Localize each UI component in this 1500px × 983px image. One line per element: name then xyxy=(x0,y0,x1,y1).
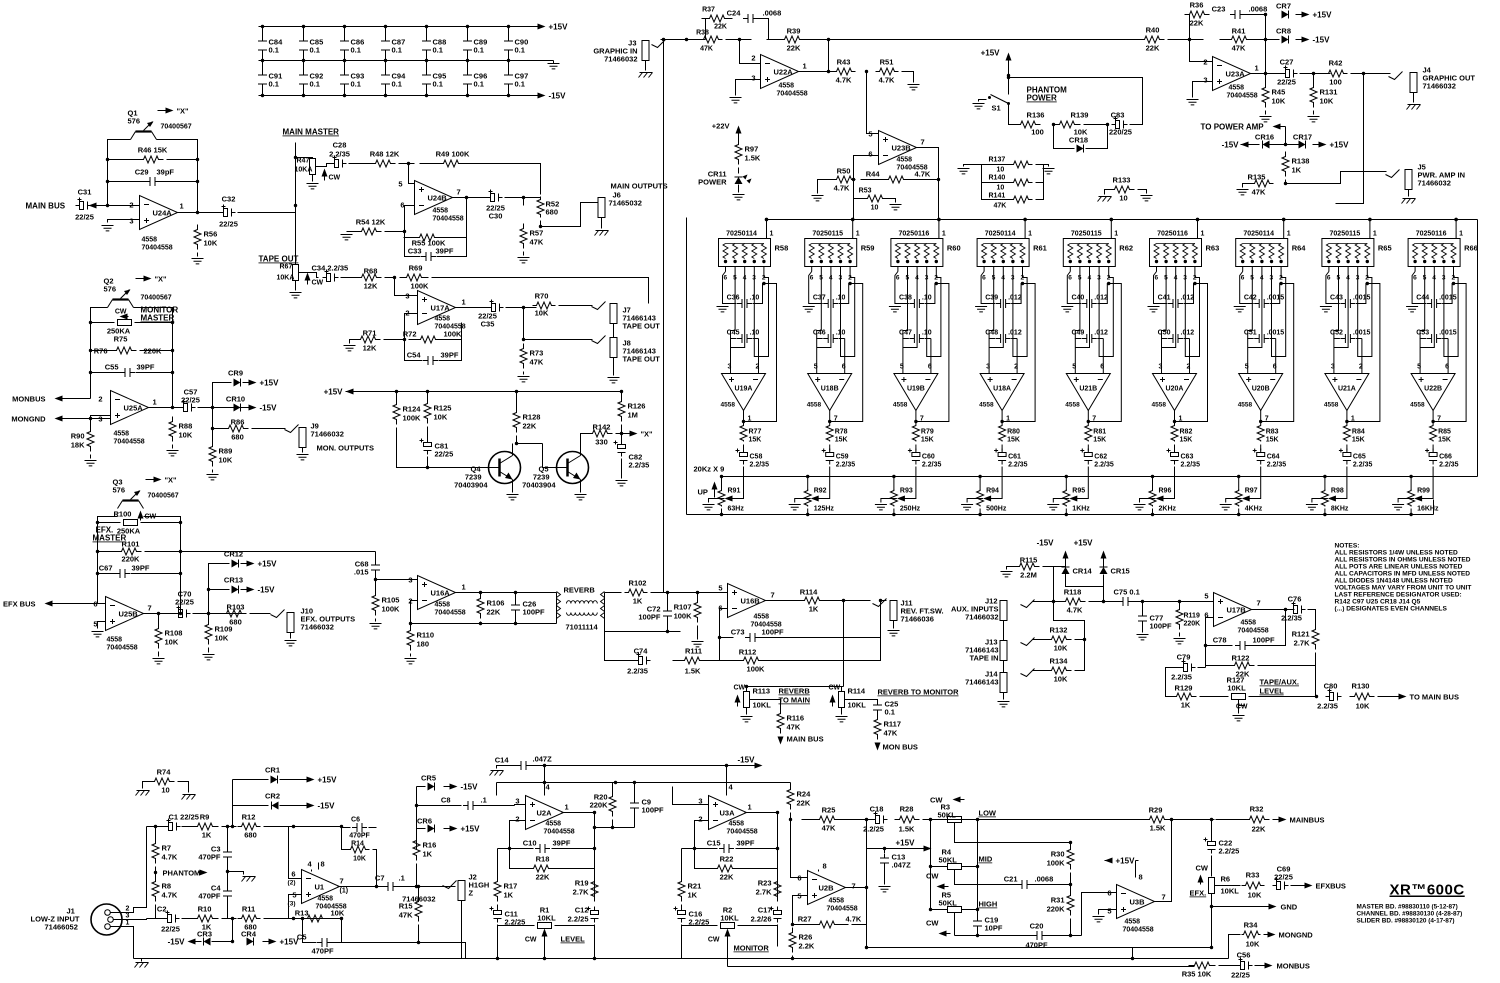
node -15V rail xyxy=(543,764,728,767)
wire pot bottom ch5 xyxy=(1065,509,1067,515)
wire ecap to wiper ch7 xyxy=(1248,467,1261,499)
wire R29 right xyxy=(1216,819,1245,821)
wire J4 gnd xyxy=(1413,93,1415,103)
wire bottom rail right xyxy=(668,631,681,633)
wire R1 wiper down xyxy=(544,939,546,959)
wire R17 bot xyxy=(497,905,499,910)
svg-text:70404558: 70404558 xyxy=(827,906,858,913)
svg-text:C6: C6 xyxy=(351,817,360,824)
svg-text:2.2/35: 2.2/35 xyxy=(750,462,770,469)
svg-text:LOW: LOW xyxy=(979,809,997,818)
ground R45 xyxy=(1260,117,1272,122)
svg-text:R82: R82 xyxy=(1180,429,1193,436)
pin 1 stub ch2 xyxy=(852,220,854,239)
wire C33 right xyxy=(437,238,467,257)
wire R90 gnd xyxy=(90,455,92,459)
hook J7 xyxy=(592,302,606,310)
svg-text:CR15: CR15 xyxy=(1111,567,1130,576)
node R136 R139 xyxy=(1052,123,1055,126)
wire cap1 right ch4 xyxy=(1011,284,1022,304)
wire C29 right xyxy=(159,181,198,183)
wire R21 bot xyxy=(681,905,683,910)
wire U2A pin4 xyxy=(544,783,546,796)
hook J11 xyxy=(873,599,887,607)
potentiometer R100 250KA xyxy=(124,520,138,526)
wire R27 to pin5 xyxy=(793,896,808,925)
wire C57 to node xyxy=(198,407,246,409)
wire R131 gnd xyxy=(1313,111,1315,115)
svg-text:680: 680 xyxy=(546,208,559,217)
wire ecap to wiper ch3 xyxy=(903,467,916,499)
svg-text:1: 1 xyxy=(1287,231,1291,238)
node cap1 pin2 ch2 xyxy=(848,282,851,285)
node r6 mon xyxy=(1210,946,1213,949)
diode CR7 xyxy=(1282,11,1289,19)
wire C3 bot xyxy=(227,860,229,872)
svg-text:R84: R84 xyxy=(1352,429,1365,436)
wire pot top ch4 xyxy=(979,477,981,491)
svg-text:R136: R136 xyxy=(1027,111,1045,120)
pin 1 stub ch9 xyxy=(1455,220,1457,239)
diode CR6 xyxy=(428,825,435,833)
wire R70 to J7 xyxy=(559,305,593,307)
svg-text:0.1: 0.1 xyxy=(433,80,443,89)
resistor R135 47K xyxy=(1251,180,1274,187)
svg-text:2.2/35: 2.2/35 xyxy=(836,462,856,469)
svg-text:8: 8 xyxy=(1139,873,1143,882)
node C20 R31 xyxy=(1069,934,1072,937)
wire R41 right xyxy=(1257,39,1280,41)
svg-text:+15V: +15V xyxy=(1116,857,1136,866)
svg-text:R114: R114 xyxy=(848,687,866,696)
svg-text:U19A: U19A xyxy=(735,386,753,393)
wire R4 left xyxy=(931,866,948,868)
svg-text:71466032: 71466032 xyxy=(402,895,435,904)
svg-text:3: 3 xyxy=(405,292,409,301)
svg-text:10: 10 xyxy=(161,786,169,795)
svg-text:CW: CW xyxy=(115,309,127,316)
wire fb U23A xyxy=(1265,40,1267,74)
wire cap1 right ch6 xyxy=(1184,284,1195,304)
wire R12 right xyxy=(264,826,342,828)
svg-text:70404558: 70404558 xyxy=(777,91,808,98)
svg-text:C74: C74 xyxy=(634,647,649,656)
node out ch2 xyxy=(828,420,831,423)
node pot top ch2 xyxy=(806,475,809,478)
svg-text:5: 5 xyxy=(93,620,97,629)
EQ filter block 70250116 ch3 xyxy=(891,239,943,267)
svg-text:C49: C49 xyxy=(1071,330,1084,337)
node pot bottom ch8 xyxy=(1323,513,1326,516)
svg-text:1K: 1K xyxy=(1181,701,1191,710)
svg-text:R105: R105 xyxy=(382,596,400,605)
resistor R34 10K xyxy=(1242,931,1261,938)
diode CR1 xyxy=(271,776,278,784)
coil resistors inside block ch2 xyxy=(809,244,852,259)
wire node up CR12 xyxy=(209,564,230,614)
potentiometer R95 1KHz xyxy=(1063,490,1070,507)
svg-text:100PF: 100PF xyxy=(1253,636,1276,645)
resistor R81 15K xyxy=(1085,425,1092,442)
wire R15 bus xyxy=(342,942,419,944)
wire R26 bottom xyxy=(792,956,794,959)
svg-text:39pF: 39pF xyxy=(157,168,175,177)
wire C10 left xyxy=(510,848,534,850)
coil resistors inside block ch6 xyxy=(1154,244,1197,259)
svg-text:R44: R44 xyxy=(866,170,881,179)
ground phantom left xyxy=(958,169,970,174)
node U17B out xyxy=(1284,608,1287,611)
hook J4 xyxy=(1389,72,1403,80)
wire Q3 left leg xyxy=(98,517,118,604)
pin stubs 6-2 ch6 xyxy=(1157,267,1195,272)
ground R131 xyxy=(1308,117,1320,122)
wire R56 to ground xyxy=(197,253,199,257)
svg-text:R140: R140 xyxy=(989,175,1006,182)
resistor R77 15K xyxy=(740,425,747,442)
wire R119 top xyxy=(1179,602,1181,605)
svg-text:CR4: CR4 xyxy=(241,930,257,939)
+15V arrow CR1 xyxy=(301,779,311,781)
wire cap2 left ch1 xyxy=(731,331,737,339)
svg-text:R67: R67 xyxy=(280,264,293,271)
wire pin5 ch4 xyxy=(989,272,994,331)
reverb transformer coils xyxy=(567,601,598,616)
svg-text:15K: 15K xyxy=(1180,437,1193,444)
wire R49 to out node xyxy=(482,164,541,195)
node pin2 xyxy=(106,204,109,207)
wire u2b mon line xyxy=(1106,947,1212,949)
capacitor C75 0.1 xyxy=(1118,597,1133,606)
node J4 xyxy=(1362,72,1365,75)
wire opamp out ch3 xyxy=(915,411,917,425)
svg-text:"X": "X" xyxy=(165,476,178,485)
wire R108 stem xyxy=(158,614,160,627)
EQ filter block 70250114 ch4 xyxy=(977,239,1029,267)
ground C82 xyxy=(616,481,628,486)
svg-text:47K: 47K xyxy=(994,203,1007,210)
wire -15V down to U3A xyxy=(726,766,728,783)
capacitor C95 0.1 xyxy=(426,61,428,96)
wire C8 right xyxy=(477,805,515,807)
diode CR10 xyxy=(234,404,241,412)
svg-text:70250114: 70250114 xyxy=(726,231,757,238)
wire C32 to main master xyxy=(238,212,296,214)
node R16 C7 xyxy=(415,885,418,888)
wire U17A out xyxy=(456,307,488,309)
svg-text:+15V: +15V xyxy=(549,23,569,32)
svg-text:U21A: U21A xyxy=(1338,386,1356,393)
wire out down xyxy=(594,869,596,901)
resistor R30 100K xyxy=(1067,845,1074,870)
transistor Q3 xyxy=(123,499,139,501)
wire C74 left xyxy=(605,632,635,661)
wire feedback ch8 xyxy=(1347,284,1380,422)
svg-text:.10: .10 xyxy=(922,330,932,337)
node pot bottom ch2 xyxy=(806,513,809,516)
capacitor C89 0.1 xyxy=(467,27,469,61)
rail nodes xyxy=(395,390,623,393)
transistor Q1 xyxy=(136,130,152,132)
node R86 xyxy=(211,427,214,430)
resistor R38 47K xyxy=(700,36,723,43)
svg-text:ALL RESISTORS IN OHMS UNLESS N: ALL RESISTORS IN OHMS UNLESS NOTED xyxy=(1335,557,1471,564)
op-amp U24B xyxy=(415,181,453,215)
svg-text:C75 0.1: C75 0.1 xyxy=(1114,588,1140,597)
capacitor C46 .10 ch2 xyxy=(823,334,838,343)
capacitor C97 0.1 xyxy=(508,61,510,96)
op-amp U3A xyxy=(709,796,747,830)
wire pin3 ch7 xyxy=(1272,272,1276,357)
svg-text:3: 3 xyxy=(129,217,133,226)
ground U25B pin5 xyxy=(92,632,104,637)
wire pot bottom ch9 xyxy=(1410,509,1412,515)
EQ filter block 70250116 ch6 xyxy=(1150,239,1202,267)
wire R112 right xyxy=(768,638,881,661)
wire opamp minus ch4 xyxy=(1016,339,1018,374)
svg-text:U22B: U22B xyxy=(1424,386,1442,393)
wire R86 to J9 xyxy=(252,428,286,430)
wire U2B up right xyxy=(866,849,868,888)
pot wiper arrow ch1 xyxy=(725,496,733,502)
svg-text:2.2/35: 2.2/35 xyxy=(1281,614,1302,623)
wire Q3 right leg xyxy=(144,517,181,614)
svg-text:18K: 18K xyxy=(71,441,85,450)
wire pin3 ch1 xyxy=(754,272,758,357)
svg-text:+22V: +22V xyxy=(712,122,730,131)
svg-text:100K: 100K xyxy=(674,612,693,621)
pot wiper arrow ch3 xyxy=(897,496,905,502)
svg-text:10K: 10K xyxy=(1054,675,1068,684)
svg-text:3: 3 xyxy=(986,364,990,371)
resistor R140 10 xyxy=(1010,179,1033,186)
svg-text:6: 6 xyxy=(1100,364,1104,371)
pot wiper arrow ch9 xyxy=(1414,496,1422,502)
svg-text:MAIN BUS: MAIN BUS xyxy=(787,735,824,744)
node R106 bottom xyxy=(479,622,517,625)
svg-text:ALL DIODES 1N4148 UNLESS NOTED: ALL DIODES 1N4148 UNLESS NOTED xyxy=(1335,578,1453,585)
svg-text:R97: R97 xyxy=(745,145,759,154)
top bus dot ch1 xyxy=(765,218,768,221)
wire C73 right xyxy=(759,601,881,638)
monbus arrow xyxy=(63,398,91,400)
svg-text:22/25: 22/25 xyxy=(1231,971,1250,980)
ground S1 xyxy=(973,104,985,109)
svg-text:47K: 47K xyxy=(700,46,713,53)
svg-text:1: 1 xyxy=(1114,231,1118,238)
svg-text:6: 6 xyxy=(797,874,801,883)
ground cap1 ch9 xyxy=(1406,307,1418,312)
svg-text:2: 2 xyxy=(1359,364,1363,371)
wire to ecap ch4 xyxy=(1001,445,1003,451)
wire pot gnd ch8 xyxy=(1312,499,1328,503)
node R30 top xyxy=(1069,841,1072,844)
capacitor C49 .012 ch5 xyxy=(1082,334,1097,343)
svg-text:POWER: POWER xyxy=(698,178,727,187)
svg-text:C23: C23 xyxy=(1212,5,1226,14)
resistor R32 22K xyxy=(1245,816,1270,823)
svg-text:C18: C18 xyxy=(870,805,884,814)
svg-text:5: 5 xyxy=(1107,907,1111,916)
wire J4 node down xyxy=(1336,74,1364,204)
wire CR18 right xyxy=(1086,125,1108,149)
capacitor C53 .0015 ch9 xyxy=(1427,334,1442,343)
potentiometer R75 250KA xyxy=(118,320,132,326)
wire pot bottom ch7 xyxy=(1238,509,1240,515)
svg-text:100PF: 100PF xyxy=(642,806,665,815)
resistor R130 10K xyxy=(1350,693,1375,700)
op-amp U19A xyxy=(722,374,766,411)
svg-text:2: 2 xyxy=(126,906,130,913)
wire U2A pin3 in xyxy=(515,805,526,806)
svg-text:TAPE OUT: TAPE OUT xyxy=(623,355,661,364)
potentiometer R5 50KL xyxy=(948,907,962,913)
svg-text:C29: C29 xyxy=(135,168,149,177)
wire R113 gnd xyxy=(746,708,748,715)
wire C16 gnd xyxy=(681,925,683,959)
block internal top bar ch2 xyxy=(812,243,850,245)
svg-text:R72: R72 xyxy=(403,330,417,339)
node cap1 pin2 ch8 xyxy=(1366,282,1369,285)
wire cap2 left ch6 xyxy=(1162,331,1168,339)
R2 CW arrow xyxy=(727,932,729,939)
wire to ecap ch3 xyxy=(915,445,917,451)
potentiometer R2 10KL xyxy=(721,923,735,929)
svg-text:R37: R37 xyxy=(702,7,715,14)
node pot bottom ch7 xyxy=(1237,513,1240,516)
resistor R73 47K xyxy=(520,344,527,369)
resistor R45 10K xyxy=(1262,83,1269,108)
monitor bus bottom xyxy=(728,966,1195,968)
svg-text:MON BUS: MON BUS xyxy=(883,743,918,752)
svg-text:.10: .10 xyxy=(836,295,846,302)
EQ filter block 70250114 ch7 xyxy=(1236,239,1288,267)
wire R101 to C68 long xyxy=(181,551,376,553)
svg-text:R135: R135 xyxy=(1248,173,1266,182)
resistor R103 680 xyxy=(222,610,247,617)
svg-text:C1 22/25: C1 22/25 xyxy=(169,813,199,822)
resistor R31 220K xyxy=(1067,891,1074,916)
+15V arrow CR9 xyxy=(243,382,253,384)
capacitor C47 .10 ch3 xyxy=(909,334,924,343)
svg-text:10KL: 10KL xyxy=(720,914,739,923)
node R135 R138 xyxy=(1284,182,1287,185)
pin labels ch9 xyxy=(1413,275,1455,282)
wire out down U3A xyxy=(777,869,779,901)
diode CR18 xyxy=(1077,145,1084,153)
op-amp U17A xyxy=(418,291,456,325)
wire R114 wiper xyxy=(845,700,878,703)
svg-text:(2): (2) xyxy=(288,880,296,887)
svg-text:-15V: -15V xyxy=(1037,539,1055,548)
wire C14 left gnd xyxy=(497,766,518,769)
node fb U3A xyxy=(693,847,779,850)
wire feedback ch9 xyxy=(1433,284,1466,422)
capacitor C91 0.1 xyxy=(262,61,264,96)
wire R2 wiper down xyxy=(727,939,729,967)
wire cap1 left ch3 xyxy=(895,297,909,304)
svg-text:R50: R50 xyxy=(837,167,851,176)
wire R21 top xyxy=(681,849,683,877)
pin stubs 6-2 ch9 xyxy=(1415,267,1453,272)
svg-text:R62: R62 xyxy=(1119,244,1133,253)
svg-text:C41: C41 xyxy=(1158,295,1171,302)
wire rail u2a xyxy=(497,782,791,784)
svg-text:100K: 100K xyxy=(1047,859,1066,868)
pot wiper arrow ch7 xyxy=(1242,496,1250,502)
wire node to pin3 xyxy=(395,278,418,296)
svg-text:R137: R137 xyxy=(989,157,1006,164)
svg-text:R74: R74 xyxy=(157,768,172,777)
pin 1 stub ch6 xyxy=(1197,220,1199,239)
capacitor C84 0.1 xyxy=(262,27,264,61)
wire to J2 xyxy=(433,886,456,888)
svg-text:4558: 4558 xyxy=(754,614,770,621)
svg-text:CR10: CR10 xyxy=(226,395,245,404)
svg-text:4558: 4558 xyxy=(1152,402,1167,409)
svg-text:U22A: U22A xyxy=(774,68,794,77)
node R12 out xyxy=(292,825,343,828)
node fb U16B xyxy=(718,636,721,639)
node out ch9 xyxy=(1431,420,1434,423)
svg-text:125Hz: 125Hz xyxy=(814,506,835,513)
wire R16 down xyxy=(416,864,418,887)
wire U3A pin4 xyxy=(726,783,728,796)
svg-text:R83: R83 xyxy=(1266,429,1279,436)
efx bus arrow xyxy=(53,603,106,605)
svg-text:1: 1 xyxy=(1028,231,1032,238)
wire phantom gnd right xyxy=(1044,165,1049,167)
capacitor C5 470PF xyxy=(317,938,332,947)
svg-text:MON. OUTPUTS: MON. OUTPUTS xyxy=(317,444,375,453)
svg-text:5: 5 xyxy=(1204,592,1208,601)
svg-text:R43: R43 xyxy=(837,58,851,67)
potentiometer R47 10KA xyxy=(310,159,316,175)
pot wiper arrow ch6 xyxy=(1156,496,1164,502)
svg-text:CR7: CR7 xyxy=(1276,2,1291,11)
wire pin3 ch6 xyxy=(1185,272,1189,357)
wire C17 gnd xyxy=(777,925,779,947)
wire CR1 right xyxy=(280,779,301,781)
resistor R46 15K xyxy=(139,156,164,163)
svg-text:.1: .1 xyxy=(481,796,487,805)
capacitor C21 .0068 xyxy=(1017,880,1032,889)
top bus dot ch4 xyxy=(1023,218,1026,221)
wire node up power amp xyxy=(1285,127,1287,145)
node C1 R7 xyxy=(154,825,157,828)
resistor R27 4.7K xyxy=(806,921,849,928)
svg-text:70250115: 70250115 xyxy=(1071,231,1102,238)
svg-text:10K: 10K xyxy=(1272,97,1286,106)
wire secondary top to R102 xyxy=(605,592,622,594)
block internal bottom dots ch8 xyxy=(1327,260,1369,263)
wire R43 node down to U23B xyxy=(867,72,879,134)
wire cap2 left ch8 xyxy=(1334,331,1340,339)
ground R90 xyxy=(85,461,97,466)
resistor R108 10K xyxy=(155,624,162,649)
pin 1 stub ch7 xyxy=(1283,220,1285,239)
wire phantom right r140 xyxy=(1036,182,1044,184)
svg-text:4558: 4558 xyxy=(897,157,913,164)
wire node down xyxy=(523,308,525,340)
capacitor C56 22/25 xyxy=(1237,958,1253,970)
R67 CW arrow xyxy=(307,276,309,285)
svg-text:6: 6 xyxy=(982,275,986,282)
pot wiper arrow ch2 xyxy=(811,496,819,502)
wire opamp minus ch7 xyxy=(1275,339,1277,374)
wire U2A pin2 loop xyxy=(510,821,526,849)
resistor R83 15K xyxy=(1257,425,1264,442)
